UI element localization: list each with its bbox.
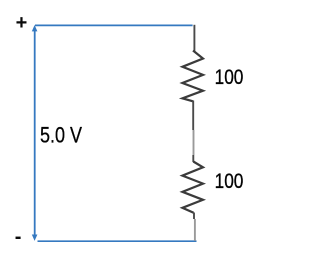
resistor R1 (182, 51, 203, 102)
wire: lead light segment to bottom wire (194, 219, 196, 241)
svg-text:-: - (15, 226, 22, 248)
svg-text:100: 100 (215, 170, 244, 193)
voltage source V1 5.0 V (double-headed arrow) (32, 25, 38, 241)
wire: bottom horizontal (node -) (38, 240, 197, 242)
wire: lead between R1 and R2 (192, 101, 194, 131)
wire: top horizontal (node +) (35, 24, 193, 26)
svg-text:+: + (16, 12, 28, 34)
resistor R2 (182, 162, 203, 213)
wire: lead from top wire to R1 (193, 25, 195, 51)
svg-text:5.0 V: 5.0 V (40, 123, 82, 148)
wire: lead into R2 (192, 155, 194, 162)
wire: lead from R2 to bottom wire (193, 213, 195, 220)
wire: lead middle light segment (193, 130, 195, 155)
svg-text:100: 100 (215, 66, 244, 89)
